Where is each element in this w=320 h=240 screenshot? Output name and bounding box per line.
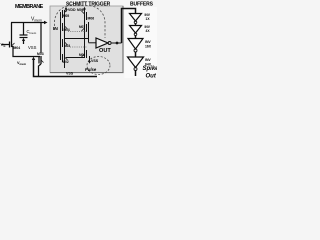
svg-text:Pulse: Pulse: [85, 67, 97, 72]
svg-text:Vlk: Vlk: [1, 42, 6, 48]
svg-text:M06: M06: [88, 17, 95, 21]
svg-text:Vmem: Vmem: [31, 17, 42, 23]
svg-text:MEMBRANE: MEMBRANE: [15, 4, 44, 10]
svg-text:BUFFERS: BUFFERS: [130, 2, 154, 8]
svg-text:Out: Out: [146, 74, 157, 80]
svg-text:VSS: VSS: [66, 72, 74, 76]
svg-text:VSS: VSS: [28, 45, 37, 50]
svg-text:SCHMITT TRIGGER: SCHMITT TRIGGER: [66, 2, 111, 8]
svg-text:16X: 16X: [145, 45, 152, 49]
svg-text:M02: M02: [63, 60, 69, 64]
svg-text:INV: INV: [145, 58, 151, 62]
svg-text:VDD: VDD: [68, 8, 76, 12]
svg-text:VSS: VSS: [91, 59, 99, 63]
svg-text:M05: M05: [63, 14, 69, 18]
svg-text:M04: M04: [14, 46, 21, 50]
svg-text:M03: M03: [37, 52, 44, 56]
svg-text:Spike: Spike: [143, 66, 158, 72]
svg-text:INV: INV: [145, 40, 151, 44]
svg-text:Cmem: Cmem: [27, 29, 37, 35]
svg-text:M06: M06: [77, 8, 84, 12]
svg-text:OUT: OUT: [99, 48, 111, 54]
svg-text:IN: IN: [53, 26, 58, 32]
